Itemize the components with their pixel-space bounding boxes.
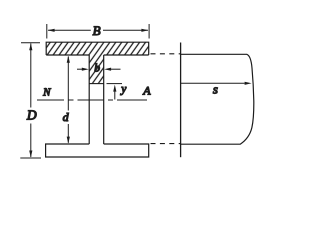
dimension D: bottom arrowhead — [29, 151, 32, 158]
neutral axis N-A (dash-dot centre line) — [37, 99, 147, 101]
dimension b: left arrow — [77, 68, 86, 70]
hatched band bottom line — [89, 83, 104, 85]
dashed connector top — [151, 53, 181, 55]
svg-text:d: d — [63, 110, 70, 124]
dashed connector bottom — [151, 143, 181, 145]
dimension B: right arrowhead — [141, 29, 148, 32]
dimension B: right tick — [148, 24, 150, 39]
web wall left — [88, 55, 90, 144]
svg-text:B: B — [93, 23, 101, 38]
dimension b: right arrow — [108, 68, 121, 70]
svg-text:y: y — [120, 84, 127, 96]
dimension d: top arrowhead — [67, 56, 70, 63]
dimension y: tick at level y — [107, 83, 123, 85]
dimension y: up arrow — [114, 90, 116, 100]
dimension D: top arrowhead — [29, 43, 32, 50]
stress diagram axis — [180, 43, 182, 158]
svg-text:N: N — [42, 86, 51, 98]
top flange (hatched) — [46, 42, 149, 55]
dimension B: line — [48, 29, 148, 31]
svg-text:A: A — [142, 84, 151, 98]
bottom flange — [46, 144, 149, 157]
svg-text:s: s — [213, 81, 218, 96]
dimension D: vertical line — [30, 43, 32, 157]
dimension d: vertical line — [67, 57, 69, 143]
dimension B: left tick — [46, 24, 48, 39]
stress distribution outline — [181, 54, 254, 144]
dimension B: left arrowhead — [48, 29, 55, 32]
svg-text:D: D — [26, 107, 37, 122]
web hatched band — [89, 55, 104, 84]
dimension D: bottom tick — [20, 157, 41, 159]
dimension d: bottom arrowhead — [67, 137, 70, 144]
arrow s — [181, 82, 245, 84]
svg-text:b: b — [94, 62, 100, 74]
dimension D: top tick — [21, 42, 40, 44]
web wall right — [103, 55, 105, 144]
